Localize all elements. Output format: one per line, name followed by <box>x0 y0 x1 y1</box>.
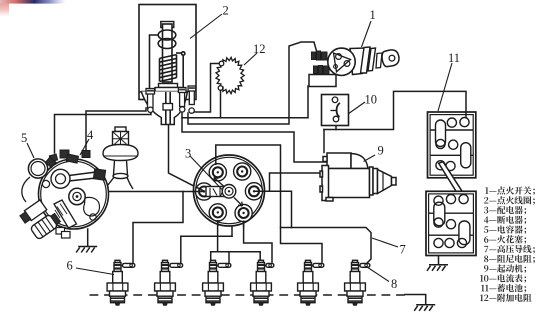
svg-text:12: 12 <box>253 42 266 56</box>
svg-text:10: 10 <box>365 93 378 107</box>
svg-text:4: 4 <box>87 128 94 142</box>
svg-text:7: 7 <box>400 243 406 257</box>
svg-text:1: 1 <box>370 8 376 22</box>
svg-text:11: 11 <box>448 51 460 65</box>
svg-text:3: 3 <box>185 147 191 161</box>
svg-text:6: 6 <box>67 259 73 273</box>
svg-text:2: 2 <box>223 4 229 18</box>
svg-text:9: 9 <box>378 144 384 158</box>
svg-text:8: 8 <box>391 277 397 291</box>
svg-text:5: 5 <box>21 131 27 145</box>
